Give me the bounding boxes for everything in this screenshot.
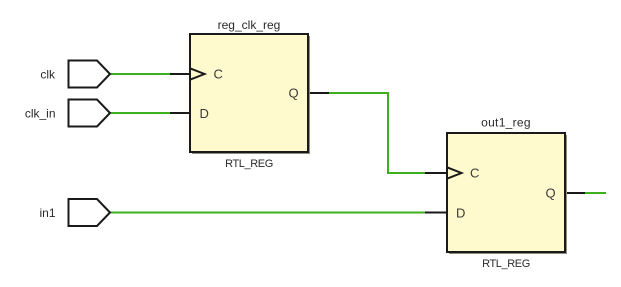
svg-text:RTL_REG: RTL_REG bbox=[482, 258, 530, 270]
svg-text:out1_reg: out1_reg bbox=[481, 116, 531, 130]
svg-text:Q: Q bbox=[289, 86, 299, 101]
svg-text:Q: Q bbox=[546, 186, 556, 201]
svg-text:D: D bbox=[200, 106, 209, 121]
svg-text:C: C bbox=[470, 166, 479, 181]
svg-text:D: D bbox=[456, 205, 465, 220]
svg-text:C: C bbox=[214, 67, 223, 82]
svg-text:clk: clk bbox=[40, 68, 56, 82]
svg-text:reg_clk_reg: reg_clk_reg bbox=[218, 18, 281, 32]
svg-text:clk_in: clk_in bbox=[25, 107, 56, 121]
svg-text:in1: in1 bbox=[39, 206, 55, 220]
svg-text:RTL_REG: RTL_REG bbox=[225, 158, 273, 170]
